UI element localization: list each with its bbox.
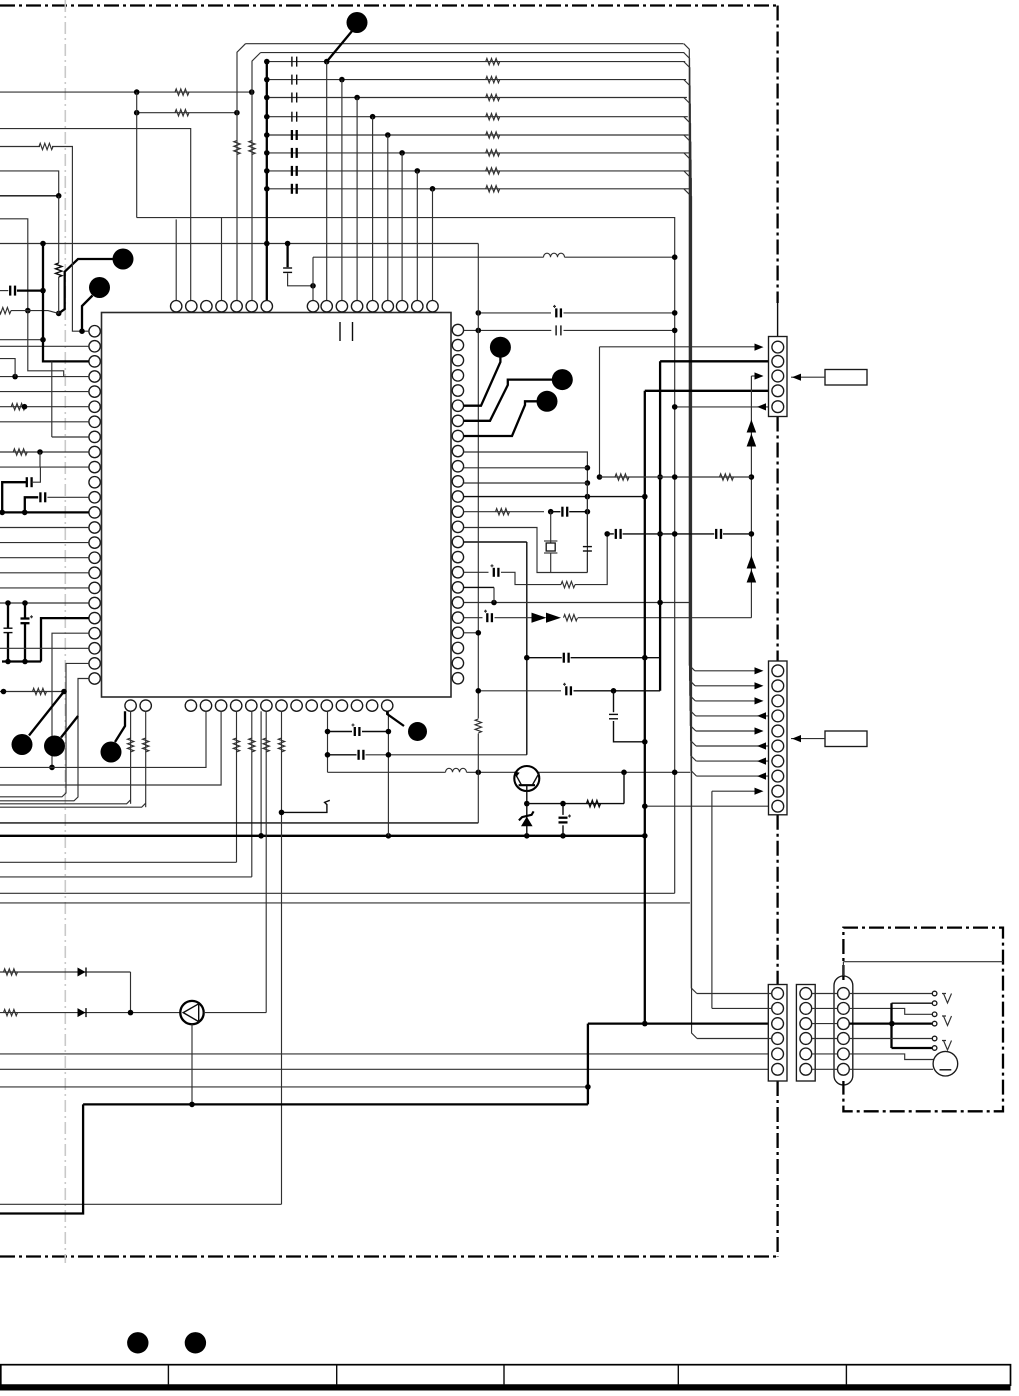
diode D2 (78, 1008, 86, 1017)
capacitor C2 (291, 75, 293, 85)
bias row with two resistors (600, 476, 752, 478)
capacitor C8 (291, 184, 293, 194)
capacitor C1 (291, 57, 293, 67)
resistor R4 (486, 114, 500, 120)
wire vertical with resistor to top pin 6 (252, 53, 261, 301)
wire to left pin 14 (0, 527, 89, 529)
wire vertical to IC top pin (387, 135, 389, 301)
motor drive thick net (0, 1104, 83, 1213)
switch wire row 6 (black) (892, 1047, 933, 1049)
label box for CN2 (825, 731, 867, 747)
wire bottom pin 1 drop with resistor (130, 711, 132, 804)
wire vertical to top pin group2 first pin (312, 257, 314, 300)
board outline dash-dot border top (0, 4, 778, 6)
footer callout dot 1 (127, 1332, 148, 1353)
capacitor C6 (291, 148, 293, 158)
wire right pin row to long drop (464, 541, 527, 543)
wire to left pin 7 (0, 421, 89, 423)
connector CN3 pin 3 (772, 1018, 784, 1030)
wire riser from edge resistor net to pin 4 row (28, 311, 64, 377)
diode D1 (78, 968, 86, 977)
junction node (476, 688, 482, 694)
junction node (672, 474, 678, 480)
label box for CN1 (825, 370, 867, 386)
electrolytic capacitor C19 (565, 686, 567, 695)
connector CN1 pin 1 (772, 341, 784, 353)
arrows into connector CN2 (695, 670, 756, 672)
wire net A horizontal (0, 91, 252, 93)
exit wire with resistor and diode D2 (0, 1012, 180, 1014)
wire to left pin 23 with drop (0, 663, 89, 796)
coupling cap row to CN2 area (thick) (527, 657, 562, 659)
junction node (889, 1021, 895, 1027)
electrolytic cap row (gray/black) (478, 690, 561, 692)
wire right pin thick to vertical (464, 496, 645, 498)
wire to left pin 15 (0, 542, 89, 544)
junction node (672, 531, 678, 537)
sensor output wire (gray) (204, 1012, 267, 1014)
electrolytic capacitor C15 (562, 804, 564, 815)
resistor R-K vertical (475, 719, 481, 733)
junction node (749, 474, 755, 480)
junction node (264, 168, 270, 174)
wire bottom pin drop long (gray) to left exit (281, 711, 283, 1204)
motor feed wire upper (849, 1054, 933, 1060)
wire bottom pin 2 drop with resistor (145, 711, 147, 807)
signal arrows (532, 613, 547, 623)
capacitor C3 (291, 93, 293, 103)
bus bend corners and vertical band at right (684, 44, 695, 671)
hook wire with junction on gray drop (282, 800, 330, 812)
connector CN1 pin 3 (772, 370, 784, 382)
thick feed to CN1 pin2 (660, 360, 787, 362)
wire CN2 pin10 row (645, 805, 787, 807)
junction node (264, 132, 270, 138)
wire to right channel (gray) (0, 892, 675, 894)
electrolytic capacitor C13 (328, 731, 353, 733)
capacitor ladder row 5 wire (267, 134, 689, 136)
mechanism unit dash-dot box (843, 928, 1003, 1112)
resistor R6 (486, 150, 500, 156)
arrow into CN2 pin9 (755, 788, 764, 795)
callout dot lead (61, 716, 78, 738)
wire to left pin 6 with resistor (0, 406, 89, 408)
resistor R1 (486, 58, 500, 64)
junction node (258, 833, 264, 839)
resistor R8 (486, 186, 500, 192)
wire to left pin 17 (0, 572, 89, 574)
decoupling rail vertical (thick) (266, 62, 268, 301)
IC internal crystal pin marks (339, 322, 341, 341)
wire exit stub black (0, 195, 59, 197)
wire vertical from net A to bus line (136, 92, 138, 218)
junction node (134, 110, 140, 116)
IC U1 top pin row group 2 (307, 301, 318, 312)
junction node (476, 770, 482, 776)
wire right pin to vertical (464, 632, 479, 634)
capacitor ladder row 1 wire (267, 61, 685, 63)
feed lines into CN3 from band (697, 993, 772, 995)
switch V mark 3 (942, 1041, 952, 1051)
switch wire row 2 (black) (892, 1002, 933, 1004)
connector CN4 pin 4 (800, 1033, 812, 1045)
wire with electrolytic cap and resistor (464, 571, 489, 573)
callout dot (left upper) (113, 249, 134, 270)
connector CN1 pin 2 (772, 355, 784, 367)
resistor R-L (496, 509, 510, 515)
muting line with arrows (464, 617, 483, 619)
connector CN5 pin 5 (838, 1048, 850, 1060)
wire to left pin 22 (0, 647, 89, 649)
wire vertical (58, 196, 60, 263)
flow arrows up pair 2 (747, 556, 757, 569)
connector CN5 pin 3 (838, 1018, 850, 1030)
connector CN2 pin 1 (772, 665, 784, 677)
footer table bottom bar (0, 1385, 1011, 1390)
electrolytic filter caps between rails (7, 603, 9, 628)
switch wire row 5 (gray) (849, 1038, 932, 1040)
feed line to CN1 pin1 (599, 346, 601, 348)
wire to left pin 13 (thick) (0, 511, 89, 513)
wire bottom pin drop (327, 711, 329, 772)
wire from frame to CN5 top (842, 962, 844, 976)
resistor R-C vertical (234, 141, 240, 155)
resistor R-H (33, 688, 47, 694)
connector CN2 pin 9 (772, 785, 784, 797)
callout dot lead (464, 380, 552, 421)
callout dot BL2 (44, 736, 65, 757)
crystal X1 (550, 512, 552, 543)
junction node (37, 449, 43, 455)
resistor R-N (564, 615, 578, 621)
capacitor C14 (328, 754, 357, 756)
capacitor C20 (609, 713, 618, 715)
leader arrow to CN2 (791, 738, 825, 740)
supply line with inductor (gray) (328, 771, 446, 773)
junction node (642, 1021, 648, 1027)
wire vertical to IC top pin (326, 62, 328, 301)
capacitor C16 (551, 511, 561, 513)
junction node (310, 283, 316, 289)
callout dot lead (115, 711, 125, 742)
wire vertical to IC top pin (432, 189, 434, 301)
capacitor C12 with thick drop to pin13 row (25, 497, 38, 512)
switch V mark 2 (942, 1016, 952, 1026)
capacitor ladder row 2 wire (267, 79, 686, 81)
resistor R-M (561, 581, 575, 587)
wire riser (623, 772, 625, 803)
connector CN2 pin 3 (772, 695, 784, 707)
switch wire row 3 (gray, stepped) (849, 1008, 932, 1014)
wire L-stub into pin 4 net (0, 359, 15, 377)
capacitor C7 (291, 166, 293, 176)
photo sensor / LED D4 (180, 1001, 203, 1024)
rail to thick net (0, 1086, 588, 1088)
resistor R-G (13, 449, 27, 455)
wire exit stub with riser (0, 219, 28, 311)
connector CN2 pin 8 (772, 770, 784, 782)
resistor R-F (11, 404, 25, 410)
wire to left pin 5 (0, 391, 89, 393)
wire to left pin 8 (51, 361, 53, 437)
resistor R3 (486, 94, 500, 100)
junction node (264, 77, 270, 83)
connector CN3 pin 6 (772, 1063, 784, 1075)
crystal ground return (464, 528, 588, 573)
sensor ground drop (191, 1024, 193, 1104)
footer callout dot 2 (185, 1332, 206, 1353)
wire bottom pin drop to exit bus 2 (0, 711, 221, 785)
connector CN3 pin 1 (772, 988, 784, 1000)
callout dot lead (59, 259, 113, 313)
junction node (264, 114, 270, 120)
vertical net x599 (599, 347, 601, 477)
junction node (524, 655, 530, 661)
junction node (264, 95, 270, 101)
callout dot BL1 (12, 734, 33, 755)
board outline dash-dot border right (lower) (776, 1081, 778, 1257)
callout dot (top) (347, 12, 368, 33)
wire with resistor under IC (0, 691, 64, 693)
wire gray L to IC top pin (0, 129, 191, 301)
servo rail to CN3 pin6 (0, 1068, 772, 1070)
junction node (128, 1010, 134, 1016)
resistor R7 (486, 168, 500, 174)
connector CN4 pin 2 (800, 1003, 812, 1015)
callout dot lead (82, 296, 93, 332)
leader arrow to CN1 (791, 376, 825, 378)
connector CN1 pin 4 (772, 385, 784, 397)
board outline dash-dot border right (upper) (776, 6, 778, 304)
bypass capacitor C9 vertical branch (286, 244, 288, 268)
wire net B horizontal (137, 112, 237, 114)
capacitor C18 (563, 653, 565, 663)
capacitor C11 branch to pin10 row (26, 477, 28, 487)
capacitor C10 on left rail (0, 290, 8, 292)
long exit wire to CN3 area (0, 902, 690, 904)
junction node (79, 328, 85, 334)
IC U1 left pin column (89, 326, 100, 337)
callout dot lead (327, 31, 353, 62)
switch common thick vertical (890, 1003, 892, 1048)
arrow into CN1 pin3 (755, 372, 764, 379)
switch wire row 4 (thick) (849, 1022, 932, 1024)
wire CN3 pin2 entry (712, 1007, 772, 1009)
junction node (264, 59, 270, 65)
inductor L2 (446, 768, 467, 772)
wire bottom pin drop long (gray) to photo sensor (265, 711, 267, 1012)
switch V mark 1 (942, 994, 952, 1004)
wire vertical to IC top pin (401, 153, 403, 301)
wire exit stub upper (0, 171, 59, 196)
callout dot R2 (552, 369, 573, 390)
wire right pin short row (464, 586, 494, 588)
connector CN4 pin 1 (800, 988, 812, 1000)
IC U1 right pin column (452, 324, 463, 335)
callout dot R1 (490, 337, 511, 358)
wire to left pin 10 (0, 466, 89, 468)
wire inductor line to right channel (313, 256, 544, 258)
connector CN4 pin 3 (800, 1018, 812, 1030)
connector CN5 pin 1 (838, 988, 850, 1000)
connector CN2 housing (769, 661, 788, 815)
junction node (56, 311, 62, 317)
connector CN5 housing (stadium) (834, 976, 853, 1085)
connector CN4 pin 6 (800, 1063, 812, 1075)
junction node (264, 150, 270, 156)
junction node (134, 89, 140, 95)
connector CN1 pin 5 (772, 401, 784, 413)
wire to left pin 18 (0, 587, 89, 589)
feed to CN1 pin3 from below (750, 376, 752, 618)
capacitor ladder row 6 wire (267, 152, 690, 154)
wire vertical to IC top pin (372, 117, 374, 301)
wire short riser (493, 587, 495, 602)
wire to left pin 19 (0, 602, 89, 604)
resistor R-E vertical (56, 263, 62, 277)
corner drop (130, 972, 132, 1013)
power rail thick horizontal (0, 835, 645, 837)
wire right pin (464, 482, 588, 484)
junction node (1, 689, 7, 695)
wire bottom pin drop with resistor to exit bus 3 (236, 711, 238, 862)
junction node (5, 600, 11, 606)
crystal network: wire pin to corner (464, 452, 588, 573)
board outline dash-dot border right (between CN2 and CN3) (776, 815, 778, 985)
wire vertical to IC top pin (341, 80, 343, 301)
junction node (642, 739, 648, 745)
connector CN3 pin 2 (772, 1003, 784, 1015)
ground rail lower (2, 660, 41, 662)
arrow on CN1 pin5 wire (757, 403, 766, 410)
connector CN5 pin 4 (838, 1033, 850, 1045)
load capacitor C17 (586, 483, 588, 544)
resistor R-Q (720, 474, 734, 480)
capacitor ladder row 7 wire (267, 170, 691, 172)
connector CN1 housing (769, 337, 788, 417)
callout dot lead (29, 692, 64, 736)
motor feed wire lower (849, 1068, 933, 1070)
connector CN2 pin 5 (772, 725, 784, 737)
junction node (585, 465, 591, 471)
callout dot lead (464, 356, 501, 406)
IC U1 bottom pin row (125, 700, 136, 711)
resistor R-D vertical (249, 141, 255, 155)
mechanism inner frame line (843, 961, 1003, 963)
wire bottom pin drop with resistor to exit bus 4 (251, 711, 253, 877)
fold mark light dash-dot vertical line (64, 0, 66, 1263)
wire to left pin 24 with drop (0, 679, 89, 801)
resistor R-P (615, 474, 629, 480)
wire vertical to IC top pin (356, 98, 358, 301)
resistor R5 (486, 132, 500, 138)
capacitor ladder row 8 wire (267, 188, 691, 190)
wire right pin 1 caps net lower (464, 329, 552, 331)
wire long horizontal bus to right channel (137, 218, 675, 894)
wire vertical to top pin 1 (175, 219, 177, 300)
wire right pin row (464, 602, 691, 604)
connector CN2 pin 7 (772, 755, 784, 767)
wire vertical to IC top pin (416, 171, 418, 301)
cap branch down (613, 691, 615, 712)
connector CN4 pin 5 (800, 1048, 812, 1060)
resistor R-A (175, 89, 189, 95)
wire long horizontal to IC area (0, 243, 478, 245)
callout dot BC1 (408, 722, 427, 741)
callout dot R3 (537, 391, 558, 412)
transistor emitter wire (526, 785, 528, 836)
wire bottom pin drop 2 (387, 711, 389, 836)
connector CN2 pin 6 (772, 740, 784, 752)
junction node (40, 241, 46, 247)
wire to net (0, 339, 43, 341)
crystal drive wire with resistor (464, 511, 544, 513)
transistor Q1 (514, 766, 539, 791)
capacitor C4 (291, 112, 293, 122)
connector CN2 pin 10 (772, 800, 784, 812)
callout dot (left lower) (89, 277, 110, 298)
IC U1 body (102, 313, 452, 698)
flow arrows up pair 1 (747, 420, 757, 433)
connector CN3 pin 4 (772, 1033, 784, 1045)
capacitor ladder row 3 wire (267, 97, 687, 99)
vertical feed line x478 (477, 244, 479, 719)
bus line from pin group (246, 43, 684, 45)
junction node (672, 254, 678, 260)
motor M1 (933, 1051, 958, 1076)
wire riser from resistor line to left pin 1 (0, 146, 40, 148)
wire right pin (464, 467, 588, 469)
junction node (0, 510, 5, 516)
switch wire row 1 (gray) (849, 993, 932, 995)
coupling row with two capacitors (thick) (604, 531, 610, 537)
wire vertical (39, 452, 41, 467)
connector CN2 pin 4 (772, 710, 784, 722)
wire to left pin 2 (0, 345, 89, 347)
board outline dash-dot border bottom (0, 1255, 778, 1257)
wire to left pin 4 (0, 376, 89, 378)
capacitor C5 (291, 130, 293, 140)
net riser with resistor to left pin 3 (thick) (43, 244, 89, 362)
capacitor ladder row 4 wire (267, 116, 688, 118)
board outline dash-dot border right (between CN1 and CN2) (776, 417, 778, 662)
wire vertical to top pin 4 (221, 218, 223, 301)
wire right pin 1 caps net upper (electrolytic) (478, 312, 551, 314)
base bias wire with resistor (527, 803, 624, 805)
resistor R-B (175, 110, 189, 116)
wire to left pin 9 with resistor (0, 451, 89, 453)
wire bottom pin drop to rail (260, 711, 262, 836)
connector CN5 pin 2 (838, 1003, 850, 1015)
servo rail to CN3 pin5 (0, 1053, 772, 1055)
wire to left pin 20 (thick L) (41, 618, 89, 661)
IC U1 top pin row group 1 (171, 301, 182, 312)
bus line 2 from pin group (261, 52, 685, 54)
gray feed to CN1 pin5 with arrow (675, 406, 787, 408)
resistor R2 (486, 76, 500, 82)
wire to left pin 21 with long drop (52, 633, 89, 767)
wires CN4 to CN5 (812, 993, 838, 995)
wire into connector CN1 top (777, 303, 779, 337)
wire with resistor at page edge (0, 307, 11, 313)
zener diode D3 (521, 817, 533, 827)
wire bottom pin drop to exit bus (0, 711, 206, 767)
thick feed to CN1 pin4 (645, 390, 787, 392)
callout dot lead (464, 401, 537, 436)
wire to left pin 16 (0, 557, 89, 559)
feed CN2 pin9 riser (711, 791, 713, 1008)
connector CN3 pin 5 (772, 1048, 784, 1060)
